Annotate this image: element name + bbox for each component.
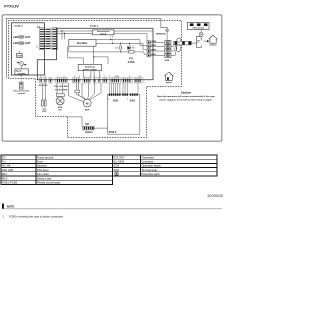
node — [129, 51, 130, 52]
swing motor M1S — [56, 97, 64, 105]
fan motor leads right — [88, 83, 89, 99]
outdoor house icon — [209, 35, 217, 43]
wires PCB1 to PCB3 connector S402 — [109, 83, 138, 93]
svg-text:H1P: H1P — [25, 36, 30, 39]
wire lower supply line with fuse — [69, 46, 147, 54]
svg-text:Fuse: Fuse — [37, 160, 43, 164]
rectifier bridge — [69, 39, 96, 46]
connector S41 on PCB1 bottom — [111, 78, 121, 83]
connector S7 on PCB1 bottom — [83, 78, 91, 83]
harness connector shells — [39, 28, 44, 50]
thermistor R2T lead — [44, 83, 46, 100]
svg-text:Rectifier: Rectifier — [77, 42, 87, 45]
PCB3 top connector pins — [109, 93, 138, 95]
PCB2 board outline — [12, 23, 45, 75]
node — [129, 43, 130, 44]
node — [110, 39, 111, 40]
svg-text:receiver: receiver — [18, 73, 26, 75]
svg-text:M1F: M1F — [2, 172, 8, 176]
wire rectifier output top — [96, 40, 147, 46]
PCB3 board outline — [108, 94, 140, 134]
svg-text:Frame ground: Frame ground — [37, 155, 54, 159]
wire S21 to PCB3 — [94, 127, 108, 129]
svg-text:BLK ORG RED: BLK ORG RED — [55, 86, 69, 88]
capacitor C1 — [120, 46, 122, 50]
cap link wires — [120, 43, 122, 45]
connector S21 — [83, 126, 94, 130]
svg-text:Swing motor: Swing motor — [37, 176, 52, 180]
svg-text:FG: FG — [2, 155, 6, 159]
node — [61, 30, 62, 31]
cable to clamp — [191, 42, 196, 44]
thermistor R1T — [41, 100, 43, 107]
svg-text:1: 1 — [127, 98, 128, 100]
fan motor harness plugs — [75, 90, 80, 93]
fan motor leads left — [75, 83, 77, 90]
legend table left — [1, 155, 113, 184]
cable clamp — [197, 36, 202, 47]
svg-text:Harness: Harness — [37, 164, 47, 168]
fan motor M1F — [83, 99, 91, 107]
svg-text:FTXxJV: FTXxJV — [4, 4, 19, 9]
svg-text:PCB1~PCB3: PCB1~PCB3 — [2, 181, 18, 185]
svg-text:M1S: M1S — [58, 107, 63, 109]
earth wire from X1M around top and left — [6, 18, 167, 78]
wire rectifier to power supply — [68, 46, 84, 64]
svg-text:NOTE: NOTE — [7, 205, 15, 209]
connector S42 on PCB1 bottom — [122, 78, 132, 83]
signal receiver box — [15, 69, 28, 75]
svg-text:1: 1 — [108, 98, 109, 100]
note header — [2, 204, 4, 209]
svg-text:R1T, R2T: R1T, R2T — [114, 155, 125, 159]
svg-text:PCB 1: PCB 1 — [90, 24, 99, 28]
thermistor R1T lead — [41, 83, 43, 100]
svg-text:control: control — [18, 92, 26, 95]
PCB1 right edge connector pins — [147, 41, 150, 57]
svg-text:S1W: S1W — [114, 164, 120, 168]
svg-text:X1M: X1M — [165, 60, 170, 62]
svg-text:Protective earth: Protective earth — [142, 172, 161, 176]
svg-text:FU: FU — [129, 56, 133, 60]
svg-text:Caution: Caution — [181, 91, 192, 95]
PCB1 board outline — [37, 28, 153, 80]
connector S43 on PCB1 bottom — [134, 78, 143, 83]
wire drop to rectifier input — [61, 31, 63, 39]
svg-text:Fan motor: Fan motor — [37, 172, 49, 176]
svg-text:Terminal strip: Terminal strip — [142, 168, 158, 172]
svg-text:BLK RED: BLK RED — [39, 85, 48, 87]
svg-text:Option: Option — [85, 131, 93, 134]
svg-text:S1~S402: S1~S402 — [114, 160, 125, 164]
protective earth screw — [166, 29, 169, 32]
inter-board connector harness PCB2 to PCB1 — [45, 27, 51, 50]
svg-text:Connector: Connector — [142, 160, 154, 164]
infrared remote control handset — [20, 82, 24, 89]
fan motor leads converge — [76, 93, 85, 99]
wire to fan motor from S7 — [68, 83, 83, 102]
wire left of transmission circuit — [58, 30, 93, 32]
svg-text:LED: LED — [13, 35, 18, 39]
field wiring legend box — [188, 22, 210, 29]
svg-text:H2P: H2P — [25, 42, 30, 45]
svg-text:Operation switch: Operation switch — [142, 164, 162, 168]
wire — [114, 34, 147, 41]
wire rectifier output bottom — [96, 43, 147, 49]
wires to terminal strip X1M — [150, 42, 165, 55]
svg-text:Printed circuit board: Printed circuit board — [37, 181, 61, 185]
svg-text:Outdoor: Outdoor — [209, 44, 217, 47]
bottom connector pin numbers — [40, 76, 142, 78]
cable grommet — [177, 38, 181, 42]
earth clamp screw — [199, 32, 203, 36]
arrow to outdoor — [203, 40, 207, 42]
field wires from X1M to outdoor — [171, 44, 177, 55]
svg-text:Infrared remote: Infrared remote — [13, 89, 30, 92]
svg-text:S401: S401 — [130, 100, 136, 103]
connector S1 on PCB1 bottom — [56, 78, 68, 83]
svg-text:PCB3 is showing the case of op: PCB3 is showing the case of option conne… — [9, 215, 64, 219]
svg-text:FU: FU — [2, 160, 6, 164]
operation switch S1W — [18, 51, 20, 54]
wire — [93, 46, 95, 64]
legend table right — [113, 155, 218, 176]
svg-text:Field wiring: Field wiring — [193, 28, 205, 30]
svg-text:Pilot lamp: Pilot lamp — [37, 168, 49, 172]
connector S26 on PCB1 bottom — [40, 78, 47, 83]
svg-text:M1S: M1S — [2, 176, 8, 180]
svg-text:circuit: circuit — [100, 32, 106, 35]
wire drop to rectifier input — [64, 34, 66, 40]
switching power supply box — [78, 64, 101, 70]
indoor unit dashed boundary — [9, 21, 182, 138]
svg-text:H1~H4: H1~H4 — [2, 164, 11, 168]
svg-text:Note that operation will resta: Note that operation will restart automat… — [157, 95, 215, 98]
svg-text:LED: LED — [13, 41, 18, 45]
svg-text:GRN/YLW: GRN/YLW — [156, 34, 166, 36]
svg-text:S402: S402 — [113, 100, 119, 103]
swing motor plug — [56, 94, 64, 97]
infrared signal receiver photo-sensor — [17, 62, 27, 66]
interconnecting cable striped — [174, 41, 191, 45]
svg-text:Thermistor: Thermistor — [142, 155, 155, 159]
connector S6 on PCB1 bottom — [73, 78, 80, 83]
terminal strip X1M — [165, 40, 171, 57]
svg-text:3.15A: 3.15A — [128, 60, 135, 64]
dotted drop wires under transmission — [110, 35, 112, 40]
svg-text:Indoor: Indoor — [166, 82, 172, 84]
wire transmission to right edge — [114, 30, 153, 32]
svg-text:3D090545: 3D090545 — [207, 194, 223, 198]
svg-text:H1P, H2P: H1P, H2P — [2, 168, 13, 172]
svg-text:PCB 3: PCB 3 — [109, 130, 117, 134]
connector S21 wire loop — [68, 117, 82, 126]
node — [64, 33, 65, 34]
transmission circuit U-TX — [92, 30, 114, 35]
svg-text:X1M: X1M — [114, 168, 119, 172]
svg-text:power supply is turned off and: power supply is turned off and then back… — [160, 99, 213, 102]
varistor V1 — [128, 46, 131, 49]
wire node to right — [94, 57, 108, 64]
thermistor labels — [43, 108, 47, 109]
swing motor leads — [56, 83, 58, 94]
svg-text:S21: S21 — [85, 124, 90, 126]
node — [93, 56, 94, 57]
node — [112, 43, 113, 44]
svg-text:PCB 2: PCB 2 — [15, 24, 24, 28]
indoor house icon — [165, 72, 174, 80]
earth wire down to X1M — [166, 32, 168, 41]
connector S40 on PCB1 bottom — [103, 78, 110, 83]
connector S8 on PCB1 bottom — [93, 78, 100, 83]
node — [120, 43, 121, 44]
thermistor R2T — [44, 100, 46, 107]
cable tag — [177, 45, 180, 52]
wires power supply to bottom connectors — [83, 71, 85, 78]
protective earth symbol in table — [115, 172, 119, 176]
pilot lamp H1P — [13, 35, 30, 39]
svg-text:M1F: M1F — [85, 110, 90, 112]
fuse FU — [129, 51, 134, 53]
drawing border frame — [2, 15, 222, 141]
harness pin rows — [40, 29, 57, 49]
wire — [58, 33, 93, 35]
svg-text:power supply: power supply — [83, 68, 97, 71]
pilot lamp H2P — [13, 41, 30, 45]
infrared remote control dash-dot link — [20, 75, 22, 83]
connector S27 on PCB1 bottom — [49, 78, 52, 83]
node — [120, 51, 121, 52]
